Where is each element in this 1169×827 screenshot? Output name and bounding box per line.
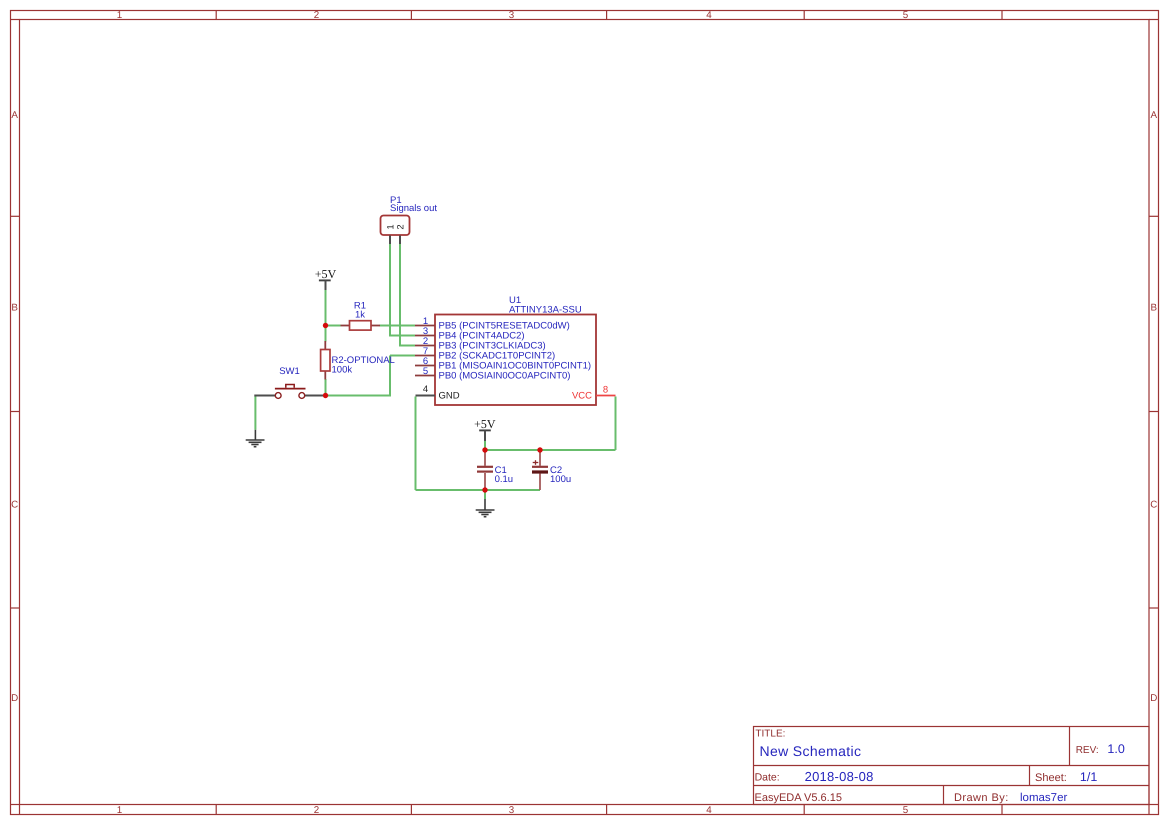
svg-text:1/1: 1/1 [1080,770,1097,784]
U1 pin name PB4 [439,330,525,341]
svg-text:TITLE:: TITLE: [755,729,785,740]
U1 pin name PB0 [439,370,571,381]
wire +5V to R2 top [325,290,327,342]
title block rev value [1107,742,1124,756]
wire VCC down [615,397,617,451]
title block drawn by value [1020,792,1067,804]
wire riser up [389,356,391,397]
C1 refdes label [495,465,507,476]
switch SW1 [254,385,323,399]
U1 pin 6 number [423,356,428,367]
wire P1 pin1 to PB4 [389,335,415,337]
junction node R1/+5V [323,323,328,328]
U1 pin name VCC [572,390,592,401]
capacitor C1 [477,450,493,490]
U1 pin name PB5 [439,320,570,331]
ground (SW1) [246,430,265,447]
svg-text:3: 3 [509,805,515,816]
svg-text:REV:: REV: [1076,745,1099,756]
title block Sheet label [1035,772,1067,784]
svg-text:1.0: 1.0 [1107,742,1124,756]
resistor R1 [341,321,381,330]
svg-text:4: 4 [706,10,712,21]
U1 pin 5 stub [415,375,435,377]
junction node +5V/C1 [482,447,487,452]
title block EasyEDA label [755,792,842,804]
R2 value label 100k [332,364,353,375]
wire GND pin down [415,397,417,491]
svg-text:New Schematic: New Schematic [760,743,862,759]
resistor R2 [321,341,330,380]
frame row labels right [1150,110,1157,704]
R1 refdes label [354,300,366,311]
svg-text:100u: 100u [550,474,571,485]
svg-text:lomas7er: lomas7er [1020,792,1067,804]
P1 name label [390,203,437,214]
P1 pin number 2 [397,225,403,229]
P1 pin number 1 [387,225,393,229]
title block sheet value [1080,770,1097,784]
power flag +5V (bottom) [475,420,496,441]
svg-text:5: 5 [423,366,428,377]
power flag +5V (left) [315,270,336,290]
svg-text:8: 8 [603,385,608,396]
wire P1 pin1 vertical [389,244,391,336]
svg-text:C: C [1150,500,1157,511]
svg-text:3: 3 [509,10,515,21]
U1 pin 1 stub [415,325,435,327]
U1 pin name PB3 [439,340,546,351]
svg-text:A: A [1151,110,1158,121]
frame column labels bottom [117,805,909,816]
svg-text:Drawn By:: Drawn By: [954,792,1009,804]
svg-text:0.1u: 0.1u [495,474,513,485]
junction node SW1/R2 [323,393,328,398]
U1 pin name PB2 [439,350,556,361]
svg-text:A: A [11,110,18,121]
svg-text:1: 1 [117,10,122,21]
U1 pin 6 stub [415,365,435,367]
U1 pin 3 number [423,326,428,337]
wire P1 pin2 vertical [399,244,401,346]
wire SW1 left down [254,396,256,430]
C2 value label 100u [550,474,571,485]
svg-text:B: B [1151,302,1158,313]
svg-text:C: C [11,500,18,511]
svg-text:SW1: SW1 [279,366,300,377]
U1 pin 4 number [423,384,428,395]
IC U1 [435,315,596,406]
wire top rail [485,449,616,451]
svg-text:GND: GND [439,390,460,401]
wire node to R1 left [326,325,341,327]
U1 part label ATTINY13A-SSU [509,304,582,315]
wire +5V2 stub [484,441,486,450]
title block title text [760,743,862,759]
frame row labels left [11,110,18,704]
svg-text:5: 5 [903,805,909,816]
wire riser to PB2 [390,355,415,357]
U1 refdes label [509,295,521,306]
SW1 refdes label [279,366,300,377]
svg-text:5: 5 [903,10,909,21]
U1 pin 8 stub (VCC) [596,395,616,397]
svg-text:2: 2 [314,10,319,21]
svg-text:2: 2 [314,805,319,816]
capacitor C2 [532,450,548,490]
wire P1 pin2 to PB3 [399,345,415,347]
R1 value label 1k [355,310,365,321]
U1 pin name GND [439,390,460,401]
svg-text:D: D [11,693,18,704]
wire junction to riser [326,395,391,397]
title block REV label [1076,745,1099,756]
frame column labels top [117,10,909,21]
svg-text:EasyEDA V5.6.15: EasyEDA V5.6.15 [755,792,842,804]
svg-text:Sheet:: Sheet: [1035,772,1067,784]
connector P1 [381,216,410,236]
U1 pin 7 stub [415,355,435,357]
wire R1 right to PB5 [380,325,416,327]
svg-text:2018-08-08: 2018-08-08 [805,769,874,784]
C2 refdes label [550,465,562,476]
U1 pin 3 stub [415,335,435,337]
P1 pin 2 stub [399,236,401,245]
ground (capacitors) [476,499,495,517]
P1 pin 1 stub [389,236,391,245]
svg-text:1k: 1k [355,310,365,321]
U1 pin 2 stub [415,345,435,347]
svg-text:D: D [1150,693,1157,704]
svg-text:VCC: VCC [572,390,592,401]
svg-text:4: 4 [706,805,712,816]
svg-text:Date:: Date: [755,772,780,784]
U1 pin 1 number [423,316,428,327]
wire bottom rail [416,489,541,491]
svg-text:PB0 (MOSIAIN0OC0APCINT0): PB0 (MOSIAIN0OC0APCINT0) [439,370,571,381]
svg-text:ATTINY13A-SSU: ATTINY13A-SSU [509,304,582,315]
U1 pin 5 number [423,366,428,377]
title block TITLE label [755,729,785,740]
title block [754,727,1150,805]
U1 pin 4 stub (GND) [416,395,436,397]
title block Date label [755,772,780,784]
svg-text:100k: 100k [332,364,353,375]
svg-text:1: 1 [117,805,122,816]
C1 value label 0.1u [495,474,513,485]
R2 refdes label [332,355,395,366]
svg-text:Signals out: Signals out [390,203,437,214]
U1 pin name PB1 [439,360,592,371]
svg-text:4: 4 [423,384,428,395]
P1 refdes label [390,195,402,206]
U1 pin 7 number [423,346,428,357]
title block date value [805,769,874,784]
svg-text:B: B [11,302,18,313]
junction node C1 bottom [482,487,487,492]
wire gnd2 stub [484,490,486,499]
U1 pin 8 number [603,385,608,396]
U1 pin 2 number [423,336,428,347]
wire R2 bottom to junction [325,379,327,396]
junction node C2 top [537,447,542,452]
title block Drawn By label [954,792,1009,804]
